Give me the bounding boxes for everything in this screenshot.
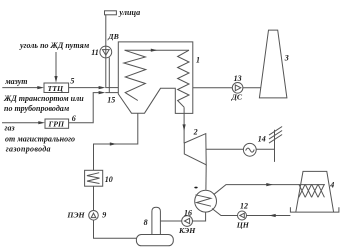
feedwater tank xyxy=(136,235,173,246)
cooling tower 4 xyxy=(296,171,334,212)
wire мазут to ТТЦ xyxy=(2,87,37,89)
wire air duct second line xyxy=(108,58,110,93)
generator 14 xyxy=(243,143,256,156)
svg-text:11: 11 xyxy=(91,48,99,57)
svg-text:13: 13 xyxy=(234,74,242,83)
svg-text:газ: газ xyxy=(5,124,15,133)
svg-text:ЦН: ЦН xyxy=(236,221,250,230)
svg-text:ДВ: ДВ xyxy=(107,32,119,41)
fan ДВ (11) xyxy=(100,46,112,58)
svg-text:ПЭН: ПЭН xyxy=(66,211,85,220)
svg-text:ЖД транспортом или: ЖД транспортом или xyxy=(3,94,84,103)
svg-text:1: 1 xyxy=(196,56,200,65)
svg-text:ДС: ДС xyxy=(231,93,243,102)
wire ГРП to furnace xyxy=(69,93,99,123)
svg-text:ТТЦ: ТТЦ xyxy=(48,84,65,93)
svg-text:газопровода: газопровода xyxy=(6,145,51,154)
wire generator to grid xyxy=(256,148,274,150)
svg-text:5: 5 xyxy=(70,77,74,86)
wire ТТЦ to furnace xyxy=(69,87,99,89)
pump ПЭН (9) xyxy=(89,211,99,221)
block ТТЦ (5) xyxy=(44,83,69,93)
wire КЭН to deaerator column xyxy=(160,220,181,222)
pump КЭН (16) xyxy=(182,216,193,227)
chimney 3 xyxy=(259,30,287,98)
wire ПЭН to heater xyxy=(93,186,95,210)
wire air duct from улица to fan ДВ xyxy=(105,15,107,88)
svg-text:КЭН: КЭН xyxy=(178,226,196,235)
svg-text:9: 9 xyxy=(102,211,106,220)
wire ДС to chimney xyxy=(243,87,261,89)
wire condensate condenser to КЭН xyxy=(193,212,206,221)
tower basin xyxy=(290,207,339,212)
svg-text:10: 10 xyxy=(105,175,113,184)
svg-text:3: 3 xyxy=(284,54,289,63)
wire steam line boiler to turbine xyxy=(183,107,185,143)
svg-text:16: 16 xyxy=(184,208,192,217)
wire tank to ПЭН xyxy=(94,220,137,238)
node улица intake xyxy=(105,11,117,15)
grid hatch strokes xyxy=(269,127,282,136)
svg-text:по трубопроводам: по трубопроводам xyxy=(4,104,70,113)
svg-text:уголь по ЖД путям: уголь по ЖД путям xyxy=(19,41,90,50)
wire feedwater heater to boiler xyxy=(94,113,138,170)
wire flue gas boiler to ДС xyxy=(193,87,233,89)
label 7 dash xyxy=(194,187,197,189)
wire cooling water out to tower xyxy=(214,185,325,195)
svg-text:15: 15 xyxy=(107,96,115,105)
svg-text:12: 12 xyxy=(240,201,248,210)
svg-text:от магистрального: от магистрального xyxy=(5,135,75,144)
wire coal to ТТЦ xyxy=(55,52,57,78)
turbine 2 xyxy=(184,134,206,165)
pump ЦН (12) xyxy=(238,211,247,220)
wire turbine exhaust to condenser xyxy=(205,165,207,190)
svg-text:14: 14 xyxy=(258,134,266,143)
node grid line xyxy=(274,130,276,162)
wire ЦН to condenser xyxy=(212,209,238,216)
wire turbine to generator xyxy=(206,148,243,150)
svg-text:улица: улица xyxy=(118,8,140,17)
coil right (convective) xyxy=(178,50,189,107)
svg-text:6: 6 xyxy=(72,114,76,123)
wire gas flow arrow in boiler top xyxy=(125,49,189,51)
coil left (furnace screen) xyxy=(124,50,146,100)
deaerator column 8 xyxy=(152,207,161,238)
svg-text:4: 4 xyxy=(329,180,334,189)
wire cooling water return from tower xyxy=(247,215,291,217)
boiler 1 outline xyxy=(118,42,193,114)
wire газ to ГРП xyxy=(2,122,39,124)
svg-text:ГРП: ГРП xyxy=(48,120,65,129)
svg-text:2: 2 xyxy=(193,128,198,137)
svg-text:мазут: мазут xyxy=(4,77,27,86)
fan ДС (13) xyxy=(232,83,243,94)
heater 10 xyxy=(85,170,103,186)
svg-text:8: 8 xyxy=(144,218,148,227)
block ГРП (6) xyxy=(45,119,69,128)
tower sprinkler X pattern xyxy=(299,184,305,197)
condenser 7 xyxy=(195,190,217,212)
